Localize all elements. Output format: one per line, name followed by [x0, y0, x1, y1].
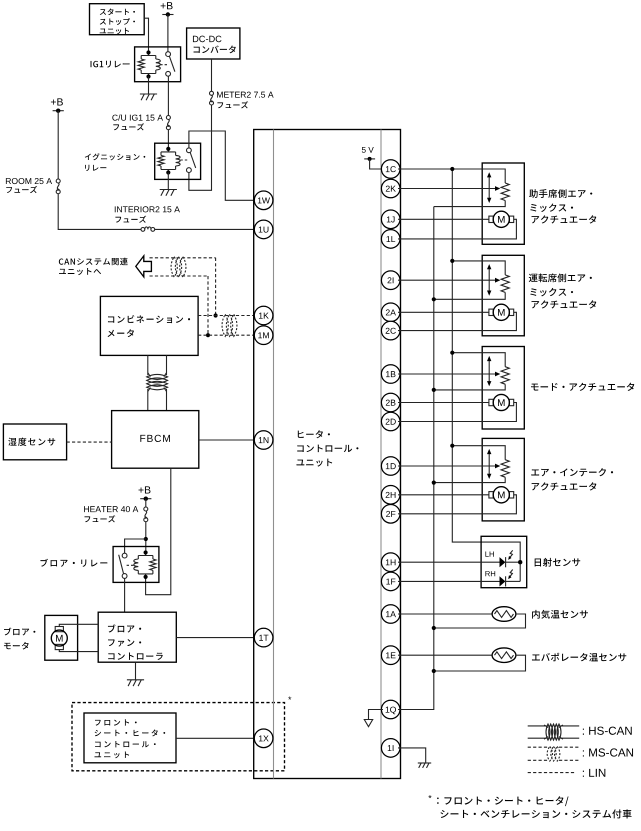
- ground (1I): [418, 762, 431, 764]
- legend LIN symbol: [528, 772, 575, 774]
- node 5V bus junction: [450, 167, 454, 171]
- wire METER2 fuse to ignition relay switch: [189, 105, 212, 190]
- node ground bus junction: [432, 481, 436, 485]
- sun sensor LH photodiode: [500, 557, 506, 567]
- component DC-DC converter: [187, 28, 240, 59]
- pin 1Q: [381, 700, 400, 719]
- wire combination meter to pin 1K (MS-CAN dashed): [198, 315, 256, 317]
- label mode actuator: [531, 384, 539, 391]
- actuator driver air mix - wiper wire and arrow: [398, 279, 495, 281]
- actuator driver air mix - motion double arrow: [488, 268, 490, 292]
- component heater control unit - outline: [254, 130, 401, 779]
- actuator passenger air mix - motion double arrow: [488, 176, 490, 200]
- pin 1W: [254, 191, 273, 210]
- twisted pair symbol (MS-CAN, arrow): [171, 257, 177, 277]
- pin 2H: [381, 486, 400, 505]
- option dashed box (front seat heater): [72, 703, 285, 771]
- node sun sensor common: [518, 560, 522, 564]
- wire ignition switch to pin 1W: [189, 131, 256, 200]
- pin 1N: [254, 431, 273, 450]
- actuator passenger air mix - box: [482, 163, 524, 244]
- node ground bus junction: [432, 297, 436, 301]
- node 5V bus junction: [450, 444, 454, 448]
- wire evaporator temp sensor return: [434, 655, 526, 671]
- node 5V bus junction: [450, 351, 454, 355]
- actuator mode - wiper wire and arrow: [398, 373, 495, 375]
- actuator air intake - wiper wire and arrow: [398, 465, 495, 467]
- wire MS-CAN low (dashed): [150, 275, 209, 277]
- wire DC-DC to METER2 fuse: [211, 59, 213, 91]
- actuator air intake - motor return wire: [398, 495, 516, 514]
- power 5V: [362, 147, 366, 153]
- actuator passenger air mix - supply wire: [398, 169, 505, 183]
- ground (blower controller): [127, 679, 144, 681]
- pin 1L: [381, 230, 400, 249]
- node 5V bus junction: [450, 259, 454, 263]
- sun sensor RH photodiode: [500, 576, 506, 586]
- label passenger air mix actuator: [529, 189, 537, 198]
- component combination meter: [100, 296, 198, 355]
- component humidity sensor: [3, 424, 66, 460]
- relay IG1 - box: [135, 47, 181, 82]
- pin 1B: [381, 365, 400, 384]
- fuse INTERIOR2 15A: [141, 228, 145, 232]
- relay blower - switch: [122, 553, 127, 558]
- label heater control unit: [298, 431, 304, 438]
- ground (1Q, triangle): [364, 720, 372, 727]
- actuator air intake - motor wire: [398, 494, 489, 496]
- wire blower relay switch to fan controller: [124, 578, 126, 612]
- label driver air mix actuator: [529, 274, 538, 282]
- label IG1 relay: [90, 61, 93, 67]
- pin 1M: [254, 326, 273, 345]
- blower motor M: [55, 627, 63, 632]
- label asterisk: [288, 697, 291, 700]
- ground (ignition relay): [160, 189, 177, 191]
- pin 2D: [381, 412, 400, 431]
- wire C/U IG1 fuse to ignition relay coil: [167, 130, 169, 149]
- wire blower motor to controller (upper): [59, 624, 98, 626]
- actuator passenger air mix - motor return wire: [398, 219, 516, 239]
- component blower motor - box: [45, 615, 78, 660]
- component FBCM: [112, 411, 199, 469]
- fuse METER2 7.5A: [210, 91, 214, 95]
- component front seat heater control unit: [84, 713, 176, 763]
- actuator driver air mix - motor M: [489, 309, 493, 315]
- actuator passenger air mix - motor M: [489, 216, 493, 222]
- relay blower - coil: [138, 553, 153, 577]
- actuator driver air mix - supply wire: [452, 261, 505, 275]
- wire ignition coil to ground: [167, 173, 169, 190]
- wire MS-CAN high (dashed): [150, 257, 216, 259]
- pin 1C: [381, 160, 400, 179]
- relay IG1 - switch: [166, 52, 171, 57]
- twisted pair symbol (MS-CAN, meter): [222, 314, 228, 336]
- pin 1K: [254, 306, 273, 325]
- twisted pair symbol (HS-CAN): [148, 373, 167, 392]
- fuse C/U IG1 15A: [166, 116, 170, 120]
- component blower fan controller: [98, 612, 176, 662]
- actuator mode - supply wire: [452, 353, 505, 367]
- wire IG1 coil to ground: [148, 77, 150, 95]
- actuator mode - motor return wire: [398, 403, 516, 422]
- pin 1A: [381, 605, 400, 624]
- sun sensor RH wire: [398, 580, 500, 582]
- wire IG1 switch to C/U IG1 fuse: [167, 76, 169, 115]
- wire +B to HEATER fuse: [145, 499, 147, 507]
- component start-stop unit: [90, 4, 145, 35]
- relay ignition - coil: [161, 149, 176, 173]
- actuator air intake - motion double arrow: [488, 453, 490, 476]
- wire blower motor to controller (lower): [59, 650, 98, 652]
- actuator passenger air mix - potentiometer resistor: [501, 183, 509, 201]
- wire combination meter to pin 1M (MS-CAN dashed): [198, 334, 256, 336]
- label blower motor: [4, 628, 11, 636]
- label CAN system units: [59, 258, 64, 264]
- wire 5V to pin 1C: [370, 159, 382, 169]
- actuator mode - potentiometer resistor: [501, 367, 509, 385]
- heater control unit - inner connector lines: [274, 130, 382, 779]
- pin 2F: [381, 505, 400, 524]
- label sun sensor: [535, 558, 541, 566]
- wire pin 1I to ground: [398, 748, 426, 763]
- wire controller to pin 1T: [176, 637, 256, 639]
- component sun sensor - box: [481, 536, 527, 587]
- wire start-stop unit to IG1 relay coil: [144, 18, 148, 52]
- sun sensor LH wire: [398, 561, 500, 563]
- wire ROOM fuse to INTERIOR2 fuse: [58, 194, 141, 230]
- fuse HEATER 40A: [144, 507, 148, 511]
- label air intake actuator: [531, 469, 539, 475]
- pin 1E: [381, 646, 400, 665]
- node MS-CAN junction on 1K line: [214, 313, 218, 317]
- wire pin 1Q to ground: [369, 710, 384, 720]
- actuator air intake - potentiometer resistor: [501, 460, 509, 478]
- pin 1X: [254, 729, 273, 748]
- component cabin temp sensor (thermistor): [492, 607, 516, 622]
- node ground bus junction (evap temp): [432, 669, 436, 673]
- pin 1U: [254, 220, 273, 239]
- fuse ROOM 25A: [56, 179, 60, 183]
- pin 1I: [381, 739, 400, 758]
- node ground bus junction: [432, 388, 436, 392]
- wire HS-CAN pair meter to FBCM: [147, 355, 149, 375]
- power +B (left): [51, 99, 56, 104]
- pin 2K: [381, 179, 400, 198]
- legend MS-CAN symbol: [528, 746, 548, 748]
- relay IG1 - coil: [141, 53, 156, 77]
- pin 2C: [381, 321, 400, 340]
- pin 2B: [381, 393, 400, 412]
- node MS-CAN junction on 1M line: [206, 333, 210, 337]
- wire FBCM to blower relay coil: [146, 468, 171, 595]
- actuator air intake - supply wire: [452, 446, 505, 460]
- legend HS-CAN symbol: [528, 725, 547, 727]
- wire pin 1E to evaporator temp sensor: [398, 654, 492, 656]
- arrow to CAN system units: [136, 256, 152, 277]
- actuator driver air mix - box: [482, 255, 524, 335]
- label ignition relay: [85, 154, 91, 160]
- pin 2A: [381, 303, 400, 322]
- actuator air intake - motor M: [489, 492, 493, 498]
- pin 2I: [381, 271, 400, 290]
- component evaporator temp sensor (thermistor): [492, 648, 516, 663]
- actuator passenger air mix - wiper wire and arrow: [398, 188, 495, 190]
- wire junction to blower relay switch: [125, 539, 146, 553]
- wire seat heater unit to pin 1X: [176, 737, 256, 739]
- wire +B to ROOM fuse: [57, 111, 59, 179]
- wire INTERIOR2 fuse to pin 1U: [155, 228, 256, 230]
- pin 1F: [381, 572, 400, 591]
- node ground bus junction (cabin temp): [432, 626, 436, 630]
- relay ignition - switch: [187, 148, 192, 153]
- actuator mode - motion double arrow: [488, 360, 490, 383]
- relay blower - box: [113, 547, 159, 583]
- wire controller to ground: [135, 662, 137, 680]
- actuator driver air mix - motor wire: [398, 311, 489, 313]
- relay ignition - box: [155, 143, 201, 179]
- actuator driver air mix - potentiometer resistor: [501, 275, 509, 293]
- actuator driver air mix - motor return wire: [398, 312, 516, 330]
- power +B (heater): [139, 487, 144, 492]
- pin 1D: [381, 457, 400, 476]
- pin 1H: [381, 553, 400, 572]
- actuator passenger air mix - motor wire: [398, 218, 489, 220]
- wire pin 1A to cabin temp sensor: [398, 613, 492, 615]
- pin 1T: [254, 628, 273, 647]
- wire humidity sensor to FBCM (LIN dashed): [67, 441, 112, 443]
- wire cabin temp sensor return: [434, 614, 526, 628]
- node heater junction: [144, 537, 148, 541]
- label evaporator temp sensor: [532, 654, 540, 660]
- label blower relay: [40, 559, 48, 567]
- power +B (top): [161, 3, 166, 8]
- actuator air intake - box: [482, 438, 524, 521]
- actuator mode - motor wire: [398, 402, 489, 404]
- ground (IG1 relay): [140, 93, 157, 95]
- pin 1J: [381, 210, 400, 229]
- wire 5V bus (right): [452, 169, 520, 581]
- actuator mode - box: [482, 347, 524, 430]
- wire sensor-ground bus (right): [398, 207, 434, 710]
- actuator mode - motor M: [489, 399, 493, 405]
- wire +B to IG1 relay switch: [167, 15, 169, 52]
- label cabin temp sensor: [532, 610, 540, 619]
- wire FBCM to pin 1N: [199, 439, 256, 441]
- wire HEATER fuse to blower relay: [145, 522, 147, 553]
- footnote: [428, 795, 431, 798]
